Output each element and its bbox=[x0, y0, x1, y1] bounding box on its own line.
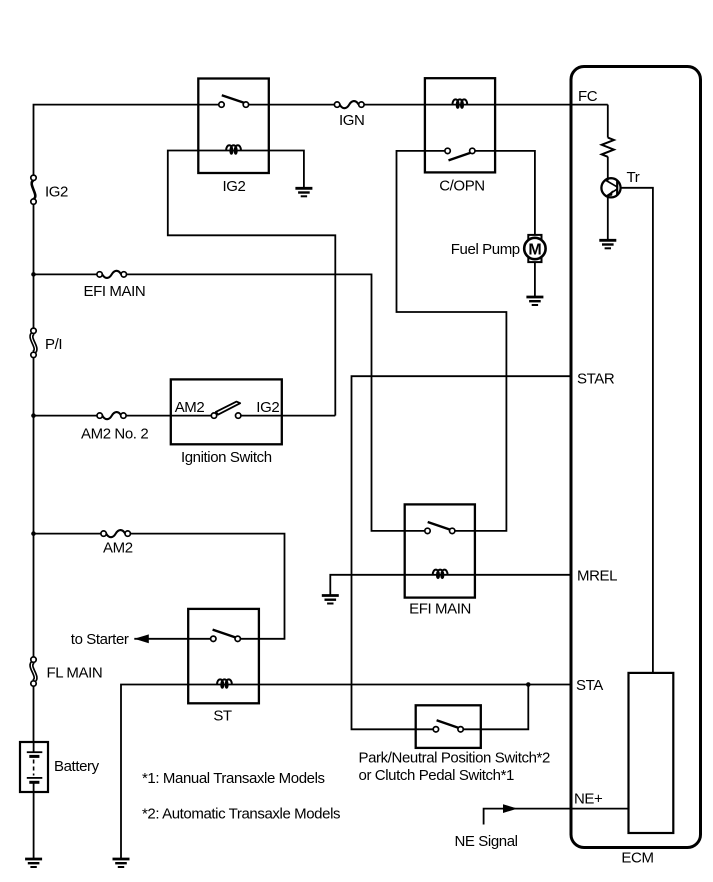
wire: AM2 No. 2 fuse to ignition switch AM2 terminal bbox=[123, 415, 214, 417]
svg-text:P/I: P/I bbox=[45, 336, 62, 353]
svg-text:C/OPN: C/OPN bbox=[439, 178, 485, 195]
C/OPN relay switch contacts and lever bbox=[445, 148, 475, 160]
wire: transistor base to ECM internal block bbox=[621, 188, 653, 673]
ignition switch contacts and lever bbox=[211, 402, 241, 419]
wire: IGN fuse through C/OPN coil to ECM FC bbox=[361, 104, 607, 106]
wire: EFI MAIN relay switch to C/OPN relay switch bbox=[397, 151, 507, 531]
junction node AM2 No. 2 fuse line bbox=[31, 413, 36, 418]
svg-text:or Clutch Pedal Switch*1: or Clutch Pedal Switch*1 bbox=[359, 767, 515, 784]
wire: FC drop to resistor bbox=[607, 105, 609, 138]
ground (battery) bbox=[25, 859, 42, 867]
fuse EFI MAIN bbox=[97, 271, 127, 278]
svg-text:Park/Neutral Position Switch*2: Park/Neutral Position Switch*2 bbox=[359, 749, 550, 766]
wire: left bus segment 3 bbox=[33, 355, 35, 660]
svg-text:Tr: Tr bbox=[627, 169, 640, 186]
svg-text:to Starter: to Starter bbox=[71, 631, 129, 648]
park/neutral switch contacts and lever bbox=[433, 720, 463, 732]
EFI MAIN relay coil bbox=[433, 570, 448, 578]
ST relay coil bbox=[217, 679, 232, 687]
ignition switch box bbox=[171, 379, 282, 444]
wire: ST relay switch to starter arrow bbox=[134, 638, 213, 640]
wire: battery positive lead bbox=[33, 742, 35, 752]
svg-text:*2: Automatic Transaxle Models: *2: Automatic Transaxle Models bbox=[142, 806, 340, 823]
relay box ST bbox=[188, 609, 259, 703]
wire: STAR line to park/neutral switch bbox=[352, 376, 573, 729]
fuse IGN bbox=[334, 101, 364, 108]
ST relay switch contacts and lever bbox=[211, 630, 241, 642]
EFI MAIN relay switch contacts and lever bbox=[425, 522, 455, 534]
wire: fuel pump to ground bbox=[534, 262, 536, 298]
fusible link IG2 bbox=[31, 175, 36, 204]
C/OPN relay coil bbox=[452, 99, 467, 107]
IG2 relay coil bbox=[226, 145, 241, 153]
transistor Tr bbox=[601, 178, 620, 197]
svg-text:IG2: IG2 bbox=[45, 184, 68, 201]
wire: AM2 No. 2 fuse line left bbox=[34, 415, 100, 417]
IG2 relay switch contacts and lever bbox=[219, 95, 249, 107]
wire: left bus segment 4 to battery bbox=[33, 684, 35, 743]
svg-text:ST: ST bbox=[213, 708, 232, 725]
wire: EFI MAIN fuse line left bbox=[34, 273, 100, 275]
fuel pump motor M1 bbox=[524, 235, 545, 262]
svg-text:MREL: MREL bbox=[577, 568, 617, 585]
ground (EFI MAIN relay coil) bbox=[322, 596, 339, 604]
wire: EFI MAIN fuse line to EFI MAIN relay switch bbox=[124, 274, 428, 531]
wire: IG2 relay coil to ignition switch IG2 terminal bbox=[168, 151, 335, 416]
resistor R (FC circuit) bbox=[602, 138, 614, 157]
wire: park/neutral switch to STA junction bbox=[461, 685, 529, 730]
ECM internal block bbox=[629, 673, 674, 833]
svg-text:*1: Manual Transaxle Models: *1: Manual Transaxle Models bbox=[142, 770, 325, 787]
ground (transistor emitter) bbox=[599, 240, 616, 248]
svg-text:STA: STA bbox=[576, 677, 603, 694]
svg-text:Fuel Pump: Fuel Pump bbox=[451, 241, 520, 258]
wire: battery negative to ground bbox=[33, 783, 35, 859]
svg-text:AM2: AM2 bbox=[175, 399, 205, 416]
fusible link P/I bbox=[31, 328, 36, 358]
ground (fuel pump) bbox=[526, 297, 543, 305]
ground (IG2 relay coil) bbox=[295, 188, 312, 196]
wire: IG2 relay coil lead inside box bbox=[198, 150, 268, 152]
junction node EFI MAIN fuse line bbox=[31, 272, 36, 277]
wire: ignition switch IG2 terminal output bbox=[238, 415, 335, 417]
wire: IG2 relay coil to ground bbox=[269, 151, 304, 189]
svg-text:Battery: Battery bbox=[54, 758, 100, 775]
svg-text:IG2: IG2 bbox=[256, 399, 279, 416]
svg-text:IGN: IGN bbox=[339, 112, 364, 129]
wire: IG2 relay switch to IGN fuse bbox=[246, 104, 337, 106]
svg-text:EFI MAIN: EFI MAIN bbox=[84, 283, 146, 300]
wire: EFI MAIN relay coil MREL line with ground drop bbox=[330, 575, 572, 595]
wire: AM2 fuse line left bbox=[34, 533, 104, 535]
wire: NE signal to NE+ bbox=[484, 809, 629, 825]
wire: AM2 fuse to ST relay switch bbox=[128, 534, 285, 639]
svg-text:ECM: ECM bbox=[621, 850, 653, 867]
ground (ST relay coil) bbox=[113, 859, 130, 867]
park/neutral position switch box bbox=[416, 705, 481, 748]
fuse AM2 No. 2 bbox=[97, 412, 126, 419]
arrow NE signal bbox=[503, 804, 518, 813]
svg-text:NE+: NE+ bbox=[574, 791, 603, 808]
relay box C/OPN bbox=[425, 78, 495, 172]
svg-text:Ignition Switch: Ignition Switch bbox=[181, 449, 272, 466]
svg-text:EFI MAIN: EFI MAIN bbox=[409, 601, 471, 618]
junction node STA line bbox=[526, 682, 531, 687]
svg-text:AM2: AM2 bbox=[103, 540, 133, 557]
svg-text:AM2 No. 2: AM2 No. 2 bbox=[81, 426, 148, 443]
junction node AM2 fuse line bbox=[31, 531, 36, 536]
svg-text:IG2: IG2 bbox=[223, 178, 246, 195]
battery cells bbox=[27, 752, 43, 782]
arrow to starter bbox=[134, 634, 149, 643]
svg-text:FL MAIN: FL MAIN bbox=[47, 665, 103, 682]
svg-text:STAR: STAR bbox=[577, 371, 615, 388]
svg-text:M: M bbox=[528, 241, 541, 258]
wire: transistor emitter to ground bbox=[607, 197, 609, 241]
wire: top feed from battery bus to IG2 relay switch bbox=[34, 105, 222, 178]
fuse AM2 bbox=[101, 530, 130, 537]
wire: C/OPN relay switch to fuel pump bbox=[472, 151, 535, 236]
wire: left bus segment 2 bbox=[33, 202, 35, 331]
svg-text:FC: FC bbox=[578, 88, 598, 105]
relay box EFI MAIN bbox=[405, 504, 475, 597]
ECM outline bbox=[571, 67, 701, 848]
wire: ST relay coil and STA line with ground drop bbox=[121, 685, 572, 860]
relay box IG2 bbox=[198, 79, 268, 174]
svg-text:NE Signal: NE Signal bbox=[455, 833, 518, 850]
battery box bbox=[20, 742, 48, 792]
wire: resistor to transistor collector bbox=[607, 157, 609, 181]
fusible link FL MAIN bbox=[31, 657, 36, 686]
